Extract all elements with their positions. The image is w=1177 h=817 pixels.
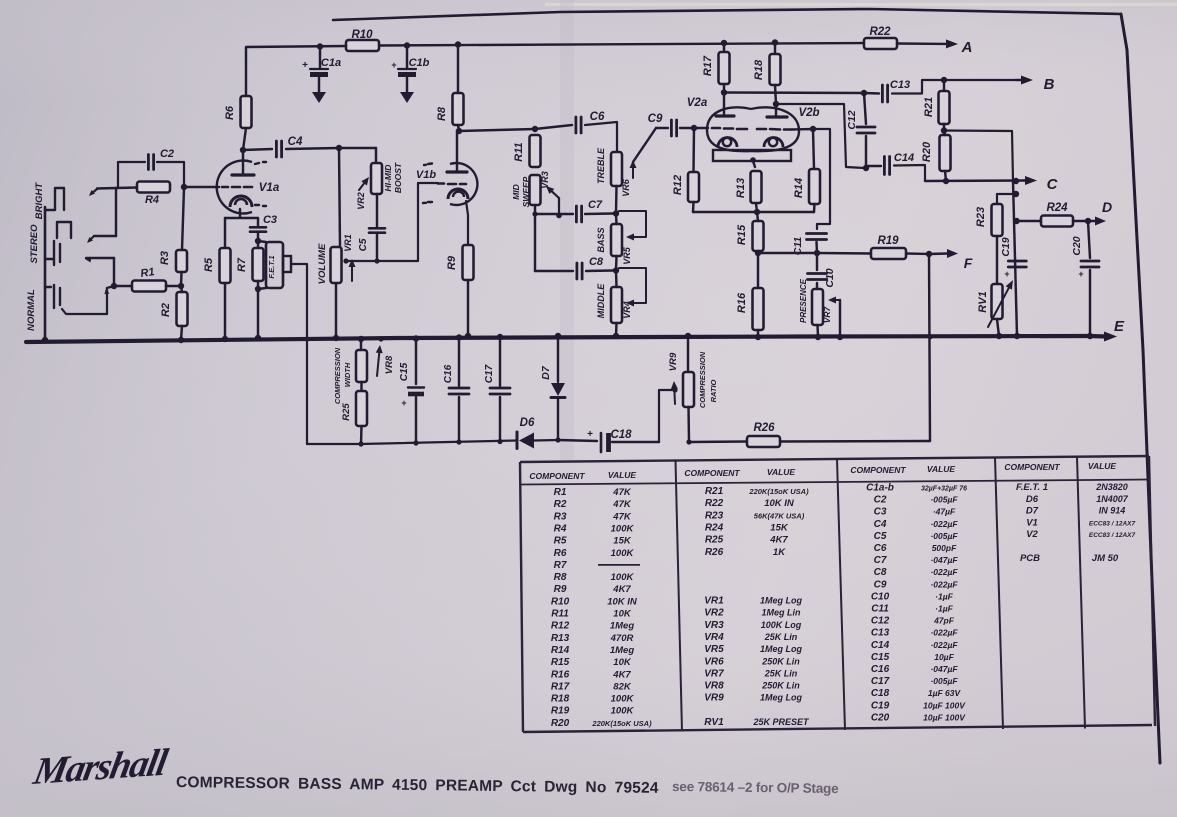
capacitor C9 xyxy=(670,120,673,136)
junction VR7 wiper bus xyxy=(837,334,843,340)
potentiometer VR7 presence xyxy=(812,289,823,325)
svg-text:R19: R19 xyxy=(551,706,570,717)
wire FET gate xyxy=(291,264,307,444)
wire C4 left xyxy=(243,149,272,150)
wire C14 right xyxy=(894,165,925,181)
svg-text:25K Lin: 25K Lin xyxy=(764,668,798,678)
svg-text:VALUE: VALUE xyxy=(608,470,637,480)
wire middle top xyxy=(615,271,618,288)
svg-text:R13: R13 xyxy=(735,178,747,198)
potentiometer VR2 xyxy=(371,163,382,194)
wire R6 bottom xyxy=(243,128,246,150)
capacitor C6 xyxy=(575,117,578,133)
svg-text:PCB: PCB xyxy=(1020,553,1040,564)
svg-text:VR9: VR9 xyxy=(668,352,679,371)
svg-text:COMPONENT: COMPONENT xyxy=(684,468,740,478)
wire R15 top xyxy=(757,212,758,221)
wire C20 bottom xyxy=(1089,270,1091,336)
wire C18 to VR9 wiper xyxy=(659,390,674,442)
wire VR9 bottom xyxy=(687,407,690,442)
tube V2 envelope xyxy=(707,107,751,151)
resistor R9 xyxy=(463,245,474,280)
junction C15 row xyxy=(413,440,418,445)
tube V2a cathode xyxy=(718,138,737,148)
wire VR3 bottom xyxy=(534,205,536,214)
resistor R2 xyxy=(177,292,188,326)
svg-text:V2b: V2b xyxy=(798,107,819,119)
svg-text:R24: R24 xyxy=(1046,202,1068,214)
wire C9 left xyxy=(656,127,668,129)
svg-text:C2: C2 xyxy=(160,148,174,160)
wire R21 top xyxy=(943,80,945,91)
svg-text:C6: C6 xyxy=(590,111,605,123)
wire VR7 bottom xyxy=(816,325,819,337)
svg-text:VR8: VR8 xyxy=(704,681,724,692)
capacitor C17b xyxy=(456,334,462,340)
junction RV1 bus xyxy=(996,333,1002,339)
svg-text:NORMAL: NORMAL xyxy=(26,289,37,331)
tube V2 base xyxy=(713,150,791,161)
svg-text:VR7: VR7 xyxy=(822,305,832,323)
wire C3 bottom xyxy=(257,232,259,241)
resistor R3 xyxy=(176,250,187,272)
junction R1-R2-R3 xyxy=(178,283,184,289)
capacitor C7 xyxy=(575,206,578,222)
wire C1b xyxy=(406,46,408,69)
svg-text:C17: C17 xyxy=(871,676,890,687)
wire C4 right xyxy=(286,148,339,149)
junction C16 row xyxy=(456,439,461,444)
svg-text:R11: R11 xyxy=(513,142,525,161)
svg-text:10µF 100V: 10µF 100V xyxy=(923,712,966,722)
junction fet gate bus xyxy=(305,337,310,342)
svg-text:C18: C18 xyxy=(871,688,890,699)
wire RV1 bottom xyxy=(997,319,999,336)
svg-text:·022µF: ·022µF xyxy=(930,519,958,529)
junction R16 bus xyxy=(755,334,761,340)
wire C6 right xyxy=(585,122,617,152)
svg-text:10K IN: 10K IN xyxy=(607,596,638,607)
svg-text:C3: C3 xyxy=(874,507,887,518)
junction rail-R17 xyxy=(721,40,727,46)
svg-text:R18: R18 xyxy=(753,59,765,80)
svg-text:BASS: BASS xyxy=(596,227,606,252)
svg-text:250K Lin: 250K Lin xyxy=(761,656,800,666)
svg-text:VR2: VR2 xyxy=(356,192,366,210)
svg-text:TREBLE: TREBLE xyxy=(596,147,606,184)
svg-text:SWEEP: SWEEP xyxy=(521,176,531,207)
junction R7 bus xyxy=(255,335,261,341)
junction C7 row left xyxy=(532,211,537,216)
svg-text:·005µF: ·005µF xyxy=(930,676,958,686)
tube V1a plate xyxy=(232,173,254,176)
svg-text:VR9: VR9 xyxy=(704,693,724,704)
svg-text:R15: R15 xyxy=(551,657,570,668)
junction V2b grid xyxy=(810,126,816,132)
wire R25 bottom xyxy=(360,426,363,444)
svg-text:R12: R12 xyxy=(551,621,570,632)
wire F to R26 xyxy=(929,254,930,441)
junction volume wiper row xyxy=(343,258,348,263)
junction R23 branch xyxy=(1013,191,1019,197)
svg-text:VR1: VR1 xyxy=(704,596,724,607)
svg-text:100K: 100K xyxy=(611,694,635,705)
resistor R17 xyxy=(719,52,730,84)
tube V2b cathode xyxy=(764,138,783,148)
svg-text:C9: C9 xyxy=(648,113,663,125)
wire HT rail xyxy=(246,46,346,48)
potentiometer VR5 bass xyxy=(611,224,622,256)
junction C12 bottom xyxy=(863,165,869,171)
junction C11 row xyxy=(814,250,820,256)
capacitor C17 xyxy=(497,334,503,340)
svg-text:R12: R12 xyxy=(672,175,684,195)
wiper VR4 xyxy=(619,268,646,303)
tube V2b grid dash xyxy=(757,128,766,131)
junction R5 bus xyxy=(222,336,228,342)
svg-text:1Meg Lin: 1Meg Lin xyxy=(761,608,801,618)
svg-text:V1: V1 xyxy=(1026,517,1038,528)
junction V1b anode xyxy=(456,128,462,134)
wire bass bottom xyxy=(615,256,618,271)
svg-text:C20: C20 xyxy=(1071,236,1083,255)
wire V2b anode out xyxy=(776,104,864,168)
svg-text:4K7: 4K7 xyxy=(769,535,788,546)
wire volume bottom xyxy=(335,283,337,338)
arrow node E xyxy=(1104,332,1117,342)
svg-text:C9: C9 xyxy=(874,579,887,590)
wire x535 down xyxy=(534,214,536,271)
wire C12 bottom xyxy=(865,136,867,168)
svg-text:RV1: RV1 xyxy=(977,291,989,312)
svg-text:C4: C4 xyxy=(874,519,887,530)
svg-text:100K: 100K xyxy=(611,706,635,717)
junction R20 C row xyxy=(943,178,949,184)
svg-text:VALUE: VALUE xyxy=(767,467,796,477)
svg-text:220K(15oK USA): 220K(15oK USA) xyxy=(591,719,652,728)
svg-text:R14: R14 xyxy=(551,645,570,656)
capacitor C13 xyxy=(881,85,884,102)
junction C20 bus xyxy=(1087,333,1093,339)
tube V2a plate xyxy=(716,114,734,117)
wire C13 right xyxy=(892,80,1016,94)
transistor FET1 body xyxy=(258,241,266,242)
wire treble bottom xyxy=(615,186,618,214)
wiper VR1 xyxy=(351,267,353,281)
wire R24 right xyxy=(1073,220,1085,222)
svg-text:JM 50: JM 50 xyxy=(1092,553,1119,564)
resistor R21 xyxy=(939,91,950,124)
svg-text:1Meg: 1Meg xyxy=(610,645,634,656)
wire R26 right xyxy=(780,440,930,443)
svg-text:F.E.T. 1: F.E.T. 1 xyxy=(1016,482,1048,493)
svg-text:15K: 15K xyxy=(770,522,789,533)
svg-text:C19: C19 xyxy=(1000,237,1012,256)
svg-text:+: + xyxy=(302,60,308,71)
junction R13 row xyxy=(754,209,760,215)
resistor R11 xyxy=(530,135,541,167)
wire input bus xyxy=(44,207,47,340)
capacitor C15 xyxy=(413,335,419,341)
svg-text:10µF: 10µF xyxy=(934,652,954,662)
wire C13 left xyxy=(864,92,879,95)
wire compression row xyxy=(307,441,517,445)
capacitor C1a xyxy=(310,68,328,70)
svg-text:R4: R4 xyxy=(554,523,567,534)
svg-text:R7: R7 xyxy=(554,560,567,571)
svg-text:R8: R8 xyxy=(554,572,567,583)
svg-text:R8: R8 xyxy=(436,106,448,121)
svg-text:BRIGHT: BRIGHT xyxy=(34,182,45,220)
wire C7 row xyxy=(535,213,573,215)
arrow node D xyxy=(1095,217,1106,226)
svg-text:R22: R22 xyxy=(705,498,724,509)
wiper VR7 xyxy=(836,299,840,301)
svg-text:100K Log: 100K Log xyxy=(761,620,802,630)
wire V2b plate xyxy=(775,104,777,117)
wire stereo link down xyxy=(113,258,115,286)
svg-text:V1a: V1a xyxy=(259,182,280,194)
tube V1b cathode xyxy=(448,189,468,199)
junction D7 row xyxy=(555,437,560,442)
svg-text:R17: R17 xyxy=(551,681,570,692)
wire R26 left xyxy=(689,440,747,443)
junction middle bus xyxy=(613,333,619,339)
svg-text:C14: C14 xyxy=(871,640,890,651)
potentiometer VR6 treble xyxy=(611,152,622,186)
resistor R5 xyxy=(220,248,231,283)
svg-text:R4: R4 xyxy=(145,194,159,206)
resistor R6 xyxy=(241,96,252,128)
wire R20 top xyxy=(944,131,945,136)
wire C11 bottom xyxy=(815,242,818,253)
svg-text:+: + xyxy=(401,398,406,408)
arrow node B xyxy=(1021,76,1033,85)
svg-text:HI-MID: HI-MID xyxy=(383,165,393,192)
svg-text:V2a: V2a xyxy=(687,97,708,109)
svg-text:25K Lin: 25K Lin xyxy=(764,632,798,642)
svg-text:R17: R17 xyxy=(702,55,714,76)
svg-text:R25: R25 xyxy=(705,535,724,546)
wire R14 bottom xyxy=(813,204,816,212)
svg-text:C20: C20 xyxy=(871,712,890,723)
resistor R22 xyxy=(864,38,897,49)
svg-text:·47µF: ·47µF xyxy=(933,507,956,517)
wire R7 top xyxy=(257,241,259,248)
resistor R19 xyxy=(871,248,906,259)
capacitor C2 loop xyxy=(118,162,145,188)
tube V1a grid xyxy=(222,186,228,189)
capacitor C4 xyxy=(275,141,278,157)
junction rail-R18 xyxy=(772,39,778,45)
wire C12 top xyxy=(864,93,866,124)
svg-text:VR6: VR6 xyxy=(704,656,724,667)
svg-text:C8: C8 xyxy=(874,567,887,578)
svg-text:C10: C10 xyxy=(824,268,836,287)
wire R21 to C row xyxy=(944,131,1013,182)
svg-text:R6: R6 xyxy=(224,105,236,120)
svg-text:250K Lin: 250K Lin xyxy=(761,681,800,691)
capacitor C14 xyxy=(883,157,886,175)
junction treble bottom xyxy=(613,210,619,216)
wire R2 xyxy=(181,286,182,292)
wire R3 top xyxy=(182,188,184,250)
svg-text:C: C xyxy=(1047,176,1059,193)
resistor R20 xyxy=(940,135,951,171)
svg-text:10K: 10K xyxy=(613,657,632,668)
svg-text:R11: R11 xyxy=(551,609,569,620)
svg-text:·1µF: ·1µF xyxy=(935,591,953,601)
svg-text:32µF+32µF 76: 32µF+32µF 76 xyxy=(921,486,967,493)
wire V1b anode xyxy=(456,131,458,172)
svg-text:C3: C3 xyxy=(263,214,277,226)
junction V2b anode xyxy=(773,101,779,107)
junction tone stack top xyxy=(532,126,538,132)
wire R6 top xyxy=(245,48,247,96)
svg-text:R23: R23 xyxy=(975,207,987,227)
svg-text:1K: 1K xyxy=(773,547,786,558)
resistor R1 xyxy=(132,281,166,292)
junction volume bus xyxy=(333,335,339,341)
resistor R12 xyxy=(688,172,699,202)
wire R7 bottom xyxy=(257,281,259,289)
wire VR7 wiper xyxy=(839,300,841,337)
wire R18 top xyxy=(774,43,776,55)
tube V1b grid xyxy=(438,182,444,185)
diode D6 xyxy=(516,432,519,449)
svg-text:R5: R5 xyxy=(554,536,567,547)
junction C20 top xyxy=(1085,218,1091,224)
svg-text:R16: R16 xyxy=(736,292,748,313)
svg-text:R3: R3 xyxy=(554,511,567,522)
capacitor C12 xyxy=(857,126,875,129)
junction R21 R20 xyxy=(941,127,947,133)
svg-text:STEREO: STEREO xyxy=(29,224,40,264)
wiper RV1 xyxy=(988,288,1009,327)
svg-text:+: + xyxy=(391,60,396,70)
wire R8 top xyxy=(457,45,459,94)
svg-text:·005µF: ·005µF xyxy=(930,495,958,505)
svg-text:100K: 100K xyxy=(611,523,635,534)
svg-text:C10: C10 xyxy=(871,591,890,602)
svg-text:ECC83 / 12AX7: ECC83 / 12AX7 xyxy=(1089,520,1136,527)
svg-text:VR8: VR8 xyxy=(384,355,395,374)
svg-text:2N3820: 2N3820 xyxy=(1095,482,1128,492)
svg-text:R20: R20 xyxy=(551,718,570,729)
wire C3 top xyxy=(257,218,259,226)
svg-text:VR2: VR2 xyxy=(704,608,724,619)
svg-text:10K: 10K xyxy=(613,609,632,620)
junction C19 bus xyxy=(1014,333,1020,339)
wire V2b grid out xyxy=(791,128,813,131)
svg-text:47K: 47K xyxy=(612,511,632,522)
preset RV1 xyxy=(992,284,1003,319)
svg-text:VR5: VR5 xyxy=(622,246,632,265)
wire R5 top xyxy=(224,218,226,248)
svg-text:R2: R2 xyxy=(554,499,567,510)
wire grid to C11 xyxy=(813,129,830,229)
svg-text:1µF 63V: 1µF 63V xyxy=(928,688,962,698)
capacitor C18 xyxy=(600,433,603,452)
ground C1b xyxy=(400,92,414,103)
wiper VR5 xyxy=(619,211,646,237)
potentiometer VR3 xyxy=(530,175,541,205)
svg-text:COMPONENT: COMPONENT xyxy=(1004,462,1060,472)
svg-text:VR3: VR3 xyxy=(704,620,724,631)
resistor R26 xyxy=(747,436,780,447)
capacitor C3 xyxy=(250,226,266,229)
junction R1 row xyxy=(111,283,117,289)
junction VR9 top xyxy=(685,333,691,339)
svg-text:C17: C17 xyxy=(484,364,495,383)
junction R9 bus xyxy=(465,333,471,339)
wire R24 left xyxy=(1017,220,1041,222)
svg-text:82K: 82K xyxy=(613,681,632,692)
junction V2a anode xyxy=(721,89,727,95)
svg-text:see 78614 –2 for O/P Stage: see 78614 –2 for O/P Stage xyxy=(672,779,839,796)
capacitor C8 xyxy=(576,263,579,279)
svg-text:COMPRESSION: COMPRESSION xyxy=(333,347,342,404)
wire R16 bottom xyxy=(757,330,759,337)
wire C row xyxy=(925,179,1024,182)
junction R4 right xyxy=(181,184,187,190)
svg-text:C1a-b: C1a-b xyxy=(866,483,894,494)
wire V1a cathode xyxy=(239,209,241,218)
wire R12 bottom xyxy=(692,202,695,212)
svg-text:VR6: VR6 xyxy=(621,178,631,197)
svg-text:E: E xyxy=(1114,318,1125,335)
wire R5 bottom xyxy=(224,283,226,339)
junction R2 bus xyxy=(178,337,184,343)
wire R17 bottom xyxy=(723,84,725,92)
svg-text:C6: C6 xyxy=(874,543,887,554)
jack bright xyxy=(45,188,64,210)
svg-text:C2: C2 xyxy=(874,495,887,506)
capacitor C19 xyxy=(1008,260,1026,263)
tube V2 cathode tap xyxy=(753,161,755,167)
wire R8 bottom xyxy=(458,125,459,131)
junction C5 row xyxy=(374,258,379,263)
wire R13 row xyxy=(693,211,757,213)
wire C1a xyxy=(319,47,321,69)
wire anode row V2 xyxy=(724,91,864,94)
wire middle bottom xyxy=(615,323,618,336)
wire R20 bottom xyxy=(945,171,946,181)
wire wiper row xyxy=(346,183,438,261)
svg-text:·022µF: ·022µF xyxy=(930,567,958,577)
resistor R7 xyxy=(253,248,264,281)
svg-text:COMPONENT: COMPONENT xyxy=(529,471,585,481)
svg-text:R23: R23 xyxy=(705,510,724,521)
wire R4 to V1a grid xyxy=(184,186,219,188)
svg-text:R14: R14 xyxy=(793,178,805,198)
switch contact stereo-a xyxy=(94,235,116,237)
wire cathode row xyxy=(225,217,258,219)
junction F row xyxy=(926,251,932,257)
svg-text:470R: 470R xyxy=(610,633,634,644)
svg-text:WIDTH: WIDTH xyxy=(343,362,352,387)
svg-text:COMPRESSION: COMPRESSION xyxy=(698,351,707,408)
potentiometer VR9 xyxy=(683,372,694,407)
svg-text:15K: 15K xyxy=(613,536,632,547)
svg-text:D: D xyxy=(1102,199,1112,215)
arrow node F xyxy=(947,249,958,258)
svg-text:C1b: C1b xyxy=(409,57,430,69)
svg-text:C7: C7 xyxy=(588,199,603,211)
wiper VR3 xyxy=(558,198,560,216)
svg-text:VR1: VR1 xyxy=(343,234,353,252)
svg-text:R16: R16 xyxy=(551,669,570,680)
